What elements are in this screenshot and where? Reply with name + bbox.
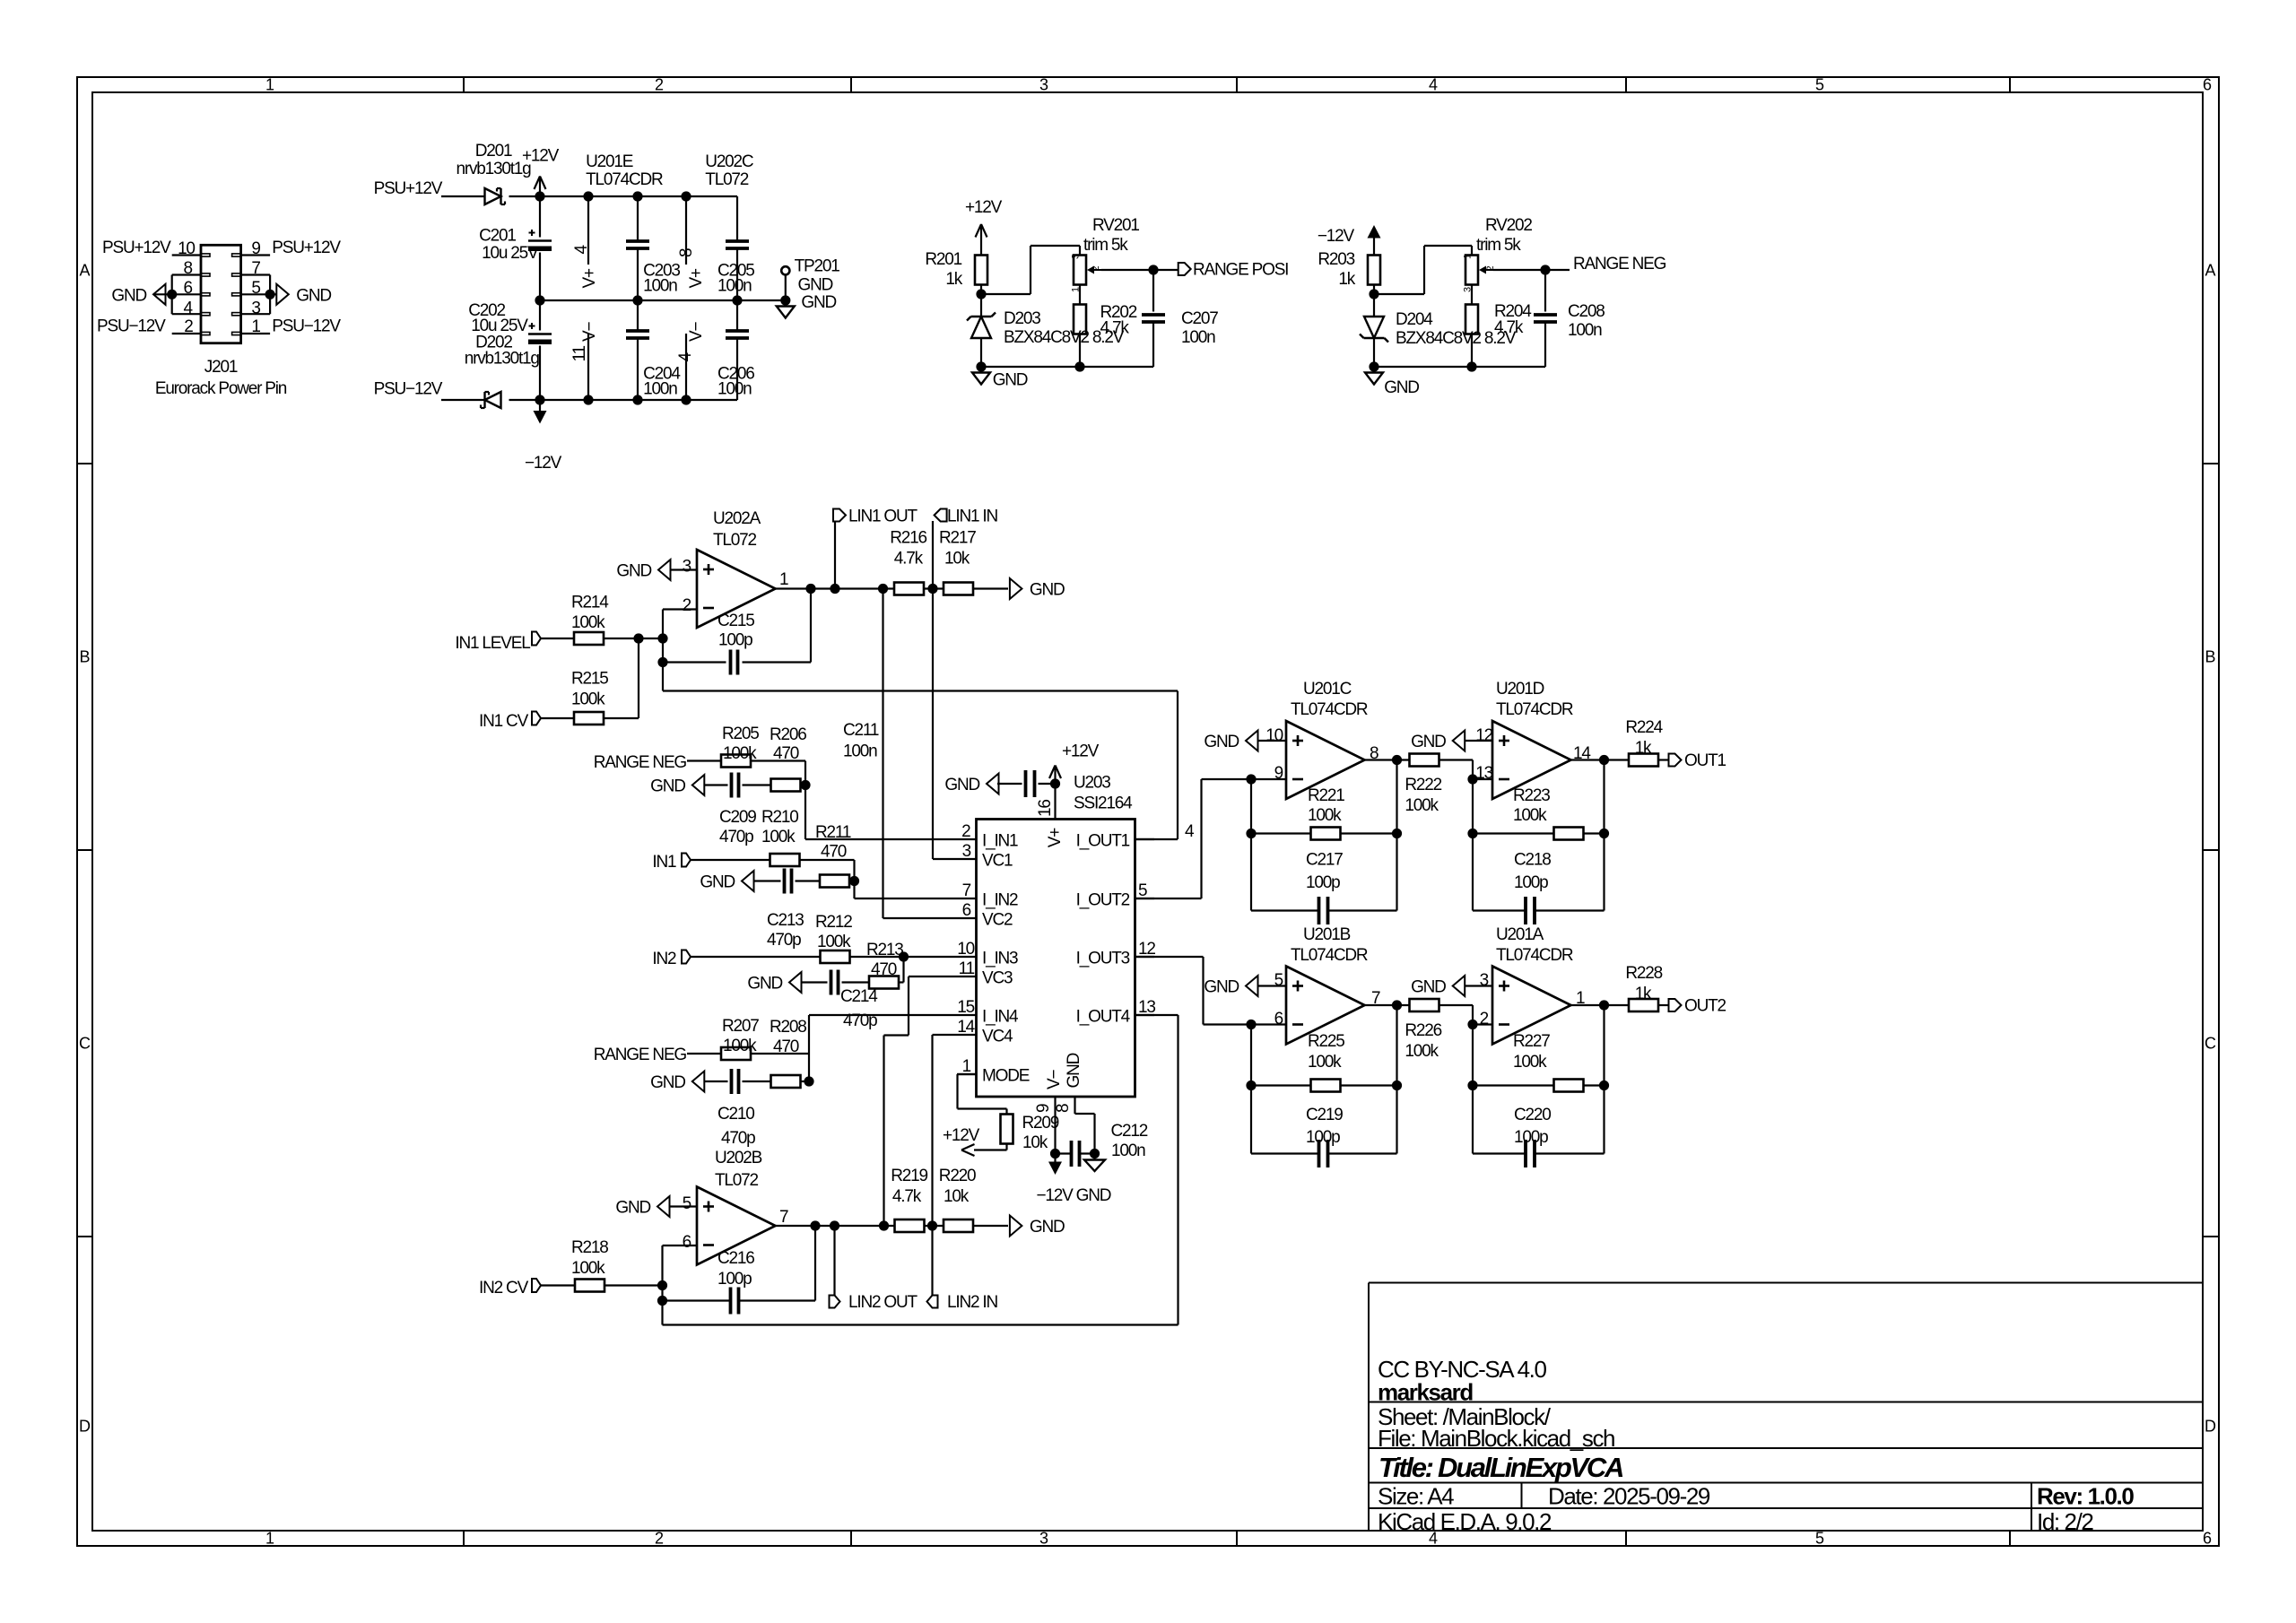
power -12V: [534, 411, 547, 424]
svg-text:100k: 100k: [723, 1037, 757, 1055]
svg-text:3: 3: [251, 299, 260, 317]
svg-text:C212: C212: [1111, 1122, 1148, 1141]
resistor R204 4.7k: [1471, 285, 1473, 306]
svg-text:2: 2: [655, 76, 664, 94]
svg-text:5: 5: [1815, 1530, 1824, 1548]
svg-text:I_IN4: I_IN4: [982, 1008, 1019, 1027]
svg-text:1k: 1k: [945, 270, 962, 289]
svg-text:GND: GND: [944, 776, 979, 794]
U203 left pin stubs: [957, 838, 977, 840]
svg-text:V+: V+: [687, 268, 706, 288]
svg-text:GND: GND: [801, 293, 836, 312]
hierarchical label LIN2 OUT: [833, 1226, 835, 1296]
svg-text:Id: 2/2: Id: 2/2: [2037, 1508, 2093, 1535]
svg-text:1k: 1k: [1338, 270, 1355, 289]
svg-text:U201A: U201A: [1496, 925, 1544, 944]
svg-text:I_OUT2: I_OUT2: [1076, 891, 1130, 910]
svg-text:V+: V+: [1046, 828, 1065, 847]
svg-text:nrvb130t1g: nrvb130t1g: [456, 160, 531, 178]
svg-text:R213: R213: [866, 941, 903, 959]
svg-text:100k: 100k: [571, 613, 605, 632]
junction: [167, 290, 177, 299]
svg-text:C218: C218: [1514, 851, 1551, 870]
capacitor C208 100n: [1544, 270, 1546, 312]
svg-text:IN1 LEVEL: IN1 LEVEL: [455, 634, 530, 653]
svg-text:IN1: IN1: [652, 853, 676, 872]
svg-text:TL074CDR: TL074CDR: [1496, 700, 1573, 719]
MODE pin wire and R209: [958, 1073, 977, 1075]
junction: [800, 780, 810, 790]
svg-text:GND: GND: [1384, 378, 1419, 397]
svg-text:I_OUT3: I_OUT3: [1076, 950, 1130, 968]
svg-text:GND: GND: [1030, 581, 1065, 600]
svg-text:10k: 10k: [944, 549, 970, 568]
hierarchical label OUT2: [1669, 999, 1682, 1011]
svg-text:PSU+12V: PSU+12V: [102, 239, 171, 257]
svg-text:R216: R216: [890, 529, 926, 548]
svg-text:−12V: −12V: [525, 454, 562, 473]
svg-text:VC4: VC4: [982, 1028, 1013, 1046]
svg-text:R219: R219: [891, 1167, 927, 1185]
svg-text:10k: 10k: [944, 1187, 970, 1206]
svg-text:B: B: [2205, 648, 2215, 666]
junction: [583, 191, 593, 201]
svg-text:6: 6: [2203, 1530, 2212, 1548]
junction: [632, 191, 642, 201]
svg-text:100n: 100n: [1111, 1141, 1145, 1160]
svg-text:D: D: [79, 1418, 91, 1436]
hierarchical label LIN1 IN: [935, 509, 947, 522]
svg-text:100p: 100p: [718, 631, 752, 650]
svg-text:PSU−12V: PSU−12V: [374, 380, 443, 399]
junction: [1540, 265, 1550, 274]
svg-text:100k: 100k: [571, 690, 605, 708]
svg-text:U202B: U202B: [715, 1149, 762, 1167]
junction: [535, 395, 544, 404]
wire: [743, 784, 772, 785]
svg-text:2: 2: [683, 596, 691, 615]
svg-text:C208: C208: [1568, 302, 1605, 321]
GND label right: [1010, 578, 1022, 599]
op-amp U201A TL074CDR: [1492, 967, 1571, 1045]
svg-text:File: MainBlock.kicad_sch: File: MainBlock.kicad_sch: [1378, 1425, 1614, 1452]
wire: [924, 587, 944, 589]
svg-text:I_IN1: I_IN1: [982, 832, 1018, 851]
svg-text:R207: R207: [722, 1017, 759, 1036]
svg-text:5: 5: [683, 1194, 691, 1213]
svg-text:2: 2: [1480, 1010, 1489, 1028]
junction: [927, 1220, 937, 1230]
capacitor C203 100n: [637, 196, 639, 241]
GND label at U201C pin10: [1246, 731, 1258, 751]
svg-text:A: A: [79, 262, 90, 280]
junction: [899, 951, 909, 961]
resistor R218 100k: [575, 1280, 604, 1292]
ground: [980, 367, 982, 373]
svg-text:R222: R222: [1405, 776, 1441, 794]
svg-text:GND: GND: [1065, 1053, 1083, 1088]
svg-text:GND: GND: [1411, 733, 1446, 751]
svg-text:R209: R209: [1022, 1114, 1059, 1133]
wire: [1545, 269, 1570, 271]
svg-text:KiCad E.D.A. 9.0.2: KiCad E.D.A. 9.0.2: [1378, 1508, 1552, 1535]
svg-text:D203: D203: [1004, 309, 1040, 328]
svg-text:D204: D204: [1396, 310, 1433, 329]
wire GND mid rail: [540, 299, 786, 301]
junction: [1467, 829, 1477, 838]
svg-text:LIN1 IN: LIN1 IN: [947, 507, 997, 525]
svg-text:I_OUT1: I_OUT1: [1076, 832, 1130, 851]
GND label: [789, 972, 802, 993]
svg-text:10: 10: [957, 940, 974, 959]
IC U203 SSI2164: [977, 820, 1135, 1098]
svg-text:LIN2 IN: LIN2 IN: [947, 1293, 997, 1312]
junction: [1467, 774, 1477, 784]
svg-text:5: 5: [1274, 971, 1283, 990]
svg-text:IN2: IN2: [652, 950, 676, 968]
power +12V at pin16: [1049, 766, 1056, 779]
U201D feedback R223 100k: [1472, 779, 1474, 911]
svg-text:Rev: 1.0.0: Rev: 1.0.0: [2037, 1483, 2134, 1510]
svg-text:R220: R220: [939, 1167, 976, 1185]
power +12V: [535, 177, 541, 190]
svg-text:RANGE NEG: RANGE NEG: [594, 753, 687, 772]
svg-text:TL074CDR: TL074CDR: [586, 170, 663, 189]
svg-text:2: 2: [655, 1530, 664, 1548]
junction: [830, 584, 839, 594]
junction: [1599, 1081, 1609, 1090]
svg-text:+12V: +12V: [943, 1126, 980, 1145]
svg-text:470: 470: [821, 843, 847, 862]
svg-text:trim 5k: trim 5k: [1476, 236, 1521, 255]
svg-text:TP201: TP201: [795, 257, 840, 276]
junction: [657, 1280, 667, 1290]
svg-text:V+: V+: [580, 268, 599, 288]
junction: [1074, 361, 1084, 371]
wire: [931, 1226, 933, 1296]
junction: [878, 584, 888, 594]
resistor R213 470: [869, 976, 899, 989]
junction: [1148, 265, 1158, 274]
hierarchical label RANGE POSI: [1178, 263, 1191, 275]
svg-text:R217: R217: [939, 529, 976, 548]
svg-text:V−: V−: [687, 322, 706, 342]
connector J201: [201, 245, 241, 343]
resistor R226 100k: [1410, 999, 1439, 1011]
capacitor C207 100n: [1152, 270, 1154, 312]
GND label right of J201: [270, 293, 276, 295]
svg-text:C215: C215: [717, 612, 754, 630]
junction: [1050, 778, 1060, 788]
capacitor C216 100p: [663, 1299, 731, 1301]
svg-text:10: 10: [178, 239, 195, 258]
svg-text:1: 1: [962, 1057, 971, 1076]
svg-text:6: 6: [184, 279, 193, 298]
resistor R220 10k: [944, 1219, 973, 1232]
svg-text:5: 5: [251, 279, 260, 298]
wire: [751, 1053, 809, 1055]
svg-text:PSU+12V: PSU+12V: [272, 239, 341, 257]
junction: [805, 584, 815, 594]
capacitor C202 10u 25V: [539, 300, 541, 331]
svg-text:470p: 470p: [767, 931, 801, 950]
test point TP201: [781, 266, 789, 274]
svg-text:GND: GND: [650, 777, 685, 796]
svg-text:10: 10: [1265, 726, 1283, 745]
svg-text:11: 11: [570, 346, 589, 362]
svg-text:MODE: MODE: [982, 1067, 1030, 1086]
svg-text:U201C: U201C: [1303, 680, 1352, 699]
resistor R208 470: [771, 1075, 801, 1088]
wire VC4 from divider: [931, 1035, 933, 1226]
svg-text:1: 1: [265, 1530, 274, 1548]
capacitor C214 470p: [830, 970, 833, 995]
svg-text:VC2: VC2: [982, 911, 1013, 930]
svg-text:GND: GND: [650, 1073, 685, 1092]
svg-text:8: 8: [677, 248, 696, 257]
svg-text:4: 4: [1185, 822, 1195, 841]
GND label left of J201: [153, 284, 166, 305]
svg-text:8: 8: [1054, 1104, 1073, 1113]
svg-text:13: 13: [1475, 764, 1492, 783]
wire output U201C: [1365, 759, 1410, 760]
GND label: [692, 775, 705, 795]
svg-text:4: 4: [572, 245, 591, 255]
svg-text:GND: GND: [798, 275, 833, 294]
wire: [801, 1081, 810, 1082]
svg-text:100p: 100p: [1306, 1128, 1340, 1147]
trimmer RV201 trim 5k: [1074, 256, 1086, 285]
wire: [687, 1053, 722, 1055]
wire: [541, 1284, 575, 1286]
op-amp U201D TL074CDR: [1492, 721, 1571, 799]
svg-text:5: 5: [1138, 881, 1147, 900]
junction: [1466, 361, 1476, 371]
junction: [632, 395, 642, 404]
resistor R216 4.7k: [894, 583, 924, 595]
wire GND bracket right: [269, 275, 271, 315]
wire: [898, 981, 904, 983]
wire: [842, 981, 871, 983]
capacitor C201 10u 25V: [539, 196, 541, 238]
wire to I_IN2: [855, 898, 958, 899]
junction: [681, 191, 691, 201]
junction: [1467, 1081, 1477, 1090]
junction: [1392, 829, 1402, 838]
svg-text:470: 470: [871, 960, 897, 979]
svg-text:TL074CDR: TL074CDR: [1291, 946, 1368, 965]
junction: [535, 191, 544, 201]
junction: [830, 1220, 839, 1230]
svg-text:D: D: [2205, 1418, 2216, 1436]
op-amp U201B TL074CDR: [1286, 967, 1365, 1045]
junction: [535, 295, 544, 305]
resistor R215 100k: [574, 712, 604, 725]
svg-text:C216: C216: [717, 1249, 754, 1268]
svg-text:7: 7: [251, 259, 260, 278]
wire bottom: [1374, 366, 1545, 368]
wire VC3 from output: [883, 1036, 884, 1227]
svg-text:9: 9: [1274, 764, 1283, 783]
GND label: [987, 774, 999, 794]
svg-text:1k: 1k: [1635, 985, 1652, 1003]
wire ch1 summing line: [663, 690, 1178, 691]
VC1 wire from LIN1 divider: [933, 858, 957, 860]
svg-text:GND: GND: [993, 370, 1028, 389]
svg-text:OUT2: OUT2: [1684, 997, 1726, 1016]
wire: [1603, 834, 1605, 911]
svg-text:Size: A4: Size: A4: [1378, 1483, 1454, 1510]
capacitor C211 100n: [997, 783, 1022, 785]
junction: [583, 395, 593, 404]
svg-text:R226: R226: [1405, 1021, 1441, 1040]
svg-text:C220: C220: [1514, 1106, 1551, 1124]
svg-text:1k: 1k: [1635, 739, 1652, 758]
junction: [732, 295, 742, 305]
svg-text:100n: 100n: [717, 380, 752, 399]
I_OUT3 wire to U201B: [1135, 956, 1204, 958]
svg-text:R201: R201: [925, 250, 961, 269]
svg-text:I_IN2: I_IN2: [982, 891, 1018, 910]
junction: [780, 295, 790, 305]
svg-text:TL072: TL072: [715, 1171, 759, 1190]
svg-text:U202C: U202C: [705, 152, 753, 171]
wire: [1603, 1086, 1605, 1154]
svg-text:4.7k: 4.7k: [892, 1187, 922, 1206]
svg-text:100k: 100k: [1513, 806, 1547, 825]
svg-text:100k: 100k: [817, 933, 851, 951]
U201C feedback R221 100k: [1250, 779, 1252, 911]
wire inverting input: [662, 610, 664, 639]
GND label right: [1010, 1216, 1022, 1237]
GND label: [692, 1072, 705, 1092]
wire: [751, 759, 805, 761]
junction: [810, 1220, 820, 1230]
wire: [925, 1225, 944, 1227]
svg-text:RANGE NEG: RANGE NEG: [594, 1046, 687, 1064]
resistor R224 1k: [1629, 754, 1658, 767]
GND label: [742, 871, 754, 891]
svg-text:SSI2164: SSI2164: [1074, 794, 1133, 813]
wire to feedback: [662, 638, 664, 691]
svg-text:C209: C209: [719, 808, 756, 827]
svg-text:PSU+12V: PSU+12V: [374, 179, 443, 198]
junction: [633, 633, 643, 643]
power +12V rotated: [974, 1149, 1007, 1150]
wire: [691, 956, 821, 958]
GND label at U201B pin5: [1246, 976, 1258, 996]
svg-text:16: 16: [1036, 800, 1055, 817]
resistor R207 100k: [721, 1047, 751, 1060]
svg-text:7: 7: [779, 1208, 788, 1227]
wire: [973, 1225, 1008, 1227]
svg-text:nrvb130t1g: nrvb130t1g: [465, 350, 540, 369]
svg-text:1: 1: [265, 76, 274, 94]
wire output U201B: [1365, 1004, 1410, 1006]
svg-text:100n: 100n: [643, 380, 677, 399]
power -12V at pin9: [1048, 1162, 1062, 1176]
op-amp U202A TL072: [697, 550, 776, 628]
wire: [687, 759, 722, 761]
svg-text:4: 4: [184, 299, 194, 317]
resistor R214 100k: [574, 632, 604, 645]
wire to summing: [661, 1286, 663, 1325]
wire: [604, 638, 663, 639]
junction: [1246, 1081, 1256, 1090]
junction: [657, 1296, 667, 1306]
svg-text:100k: 100k: [1308, 806, 1342, 825]
svg-text:V−: V−: [1045, 1070, 1064, 1089]
svg-text:C210: C210: [717, 1105, 754, 1124]
wire to I_IN3: [904, 956, 958, 958]
wire PSU-12V rail: [441, 399, 485, 401]
svg-text:Eurorack Power Pin: Eurorack Power Pin: [155, 379, 287, 398]
resistor R219 4.7k: [895, 1219, 925, 1232]
op-amp U201C TL074CDR: [1286, 721, 1365, 799]
junction: [1369, 289, 1378, 299]
junction: [1599, 1000, 1609, 1010]
resistor R205 100k: [721, 755, 751, 768]
svg-text:GND: GND: [616, 562, 651, 581]
svg-text:15: 15: [957, 998, 974, 1017]
svg-text:100p: 100p: [717, 1270, 752, 1289]
capacitor C205 100n: [736, 196, 738, 241]
svg-text:100n: 100n: [717, 277, 752, 296]
svg-text:U203: U203: [1074, 774, 1110, 793]
svg-text:B: B: [79, 648, 90, 666]
svg-text:U201E: U201E: [586, 152, 633, 171]
diode D203 BZX84C8V2 zener: [980, 294, 982, 317]
capacitor C213 470p: [783, 869, 787, 894]
svg-text:C214: C214: [840, 987, 878, 1006]
junction: [1050, 1149, 1060, 1159]
resistor R209 10k: [1005, 1109, 1007, 1115]
svg-text:GND: GND: [296, 287, 331, 306]
svg-text:9: 9: [1034, 1104, 1053, 1113]
wire: [1396, 1086, 1397, 1154]
wire: [541, 638, 574, 639]
svg-text:R228: R228: [1625, 964, 1662, 983]
svg-text:100n: 100n: [843, 742, 877, 761]
svg-text:7: 7: [962, 881, 971, 900]
wire: [800, 784, 806, 785]
svg-text:R225: R225: [1308, 1032, 1344, 1051]
svg-text:4: 4: [676, 352, 695, 362]
wire to RV201 pin3: [981, 293, 1031, 295]
wire VC2 from output: [882, 589, 883, 919]
svg-text:LIN2 OUT: LIN2 OUT: [848, 1293, 918, 1312]
svg-text:IN1 CV: IN1 CV: [479, 712, 529, 731]
svg-text:3: 3: [962, 842, 971, 861]
svg-text:2: 2: [961, 822, 970, 841]
svg-text:IN2 CV: IN2 CV: [479, 1279, 529, 1298]
junction: [804, 1076, 813, 1086]
hierarchical label OUT1: [1669, 754, 1682, 767]
resistor R203 1k: [1368, 256, 1380, 285]
junction: [632, 295, 642, 305]
svg-text:+12V: +12V: [522, 147, 560, 166]
wire: [796, 880, 821, 881]
svg-text:marksard: marksard: [1378, 1379, 1473, 1406]
svg-text:trim 5k: trim 5k: [1083, 236, 1128, 255]
svg-text:Date: 2025-09-29: Date: 2025-09-29: [1548, 1483, 1710, 1510]
svg-text:10u 25V: 10u 25V: [482, 244, 539, 263]
wire wiper: [1101, 269, 1153, 271]
svg-text:V−: V−: [580, 322, 599, 342]
diode D204 BZX84C8V2 zener: [1373, 294, 1375, 317]
GND label at U201A pin3: [1453, 976, 1465, 996]
GND label at U201D pin12: [1453, 731, 1465, 751]
